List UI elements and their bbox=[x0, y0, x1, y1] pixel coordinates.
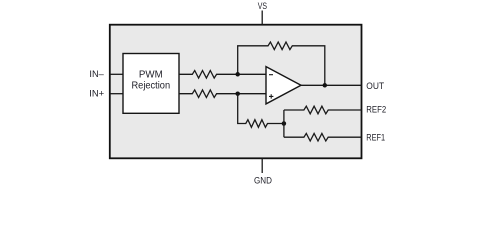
svg-text:REF1: REF1 bbox=[366, 133, 385, 144]
feedback loop with resistor bbox=[238, 42, 325, 85]
svg-text:GND: GND bbox=[254, 175, 272, 186]
pin GND bbox=[261, 158, 263, 173]
op-amp plus sign bbox=[269, 94, 273, 98]
wire op-amp output to OUT bbox=[301, 84, 362, 86]
svg-text:Rejection: Rejection bbox=[132, 80, 171, 91]
op-amp U1 bbox=[266, 67, 301, 104]
node at plus input bbox=[235, 91, 240, 96]
PWM Rejection block bbox=[123, 54, 179, 114]
pin VS bbox=[261, 11, 263, 25]
svg-text:IN+: IN+ bbox=[89, 89, 104, 100]
vertical wire joining REF branches bbox=[283, 110, 285, 137]
wire with input resistor (plus path) bbox=[179, 90, 267, 98]
wire IN- to PWM block bbox=[110, 73, 123, 75]
wire with input resistor (minus path) bbox=[179, 71, 267, 79]
IC body box bbox=[110, 25, 362, 159]
node at minus input bbox=[235, 72, 240, 77]
svg-text:VS: VS bbox=[258, 1, 267, 12]
node at output bbox=[323, 83, 328, 88]
svg-text:IN–: IN– bbox=[89, 69, 104, 80]
svg-text:REF2: REF2 bbox=[366, 105, 386, 116]
svg-text:OUT: OUT bbox=[366, 81, 384, 92]
REF1 branch with resistor bbox=[284, 133, 362, 141]
svg-text:PWM: PWM bbox=[139, 70, 163, 81]
op-amp minus sign bbox=[269, 74, 273, 76]
REF2 branch with resistor bbox=[284, 106, 362, 114]
node at reference divider bbox=[282, 121, 287, 126]
wire from plus node down through resistor bbox=[238, 94, 284, 128]
wire IN+ to PWM block bbox=[110, 93, 123, 95]
